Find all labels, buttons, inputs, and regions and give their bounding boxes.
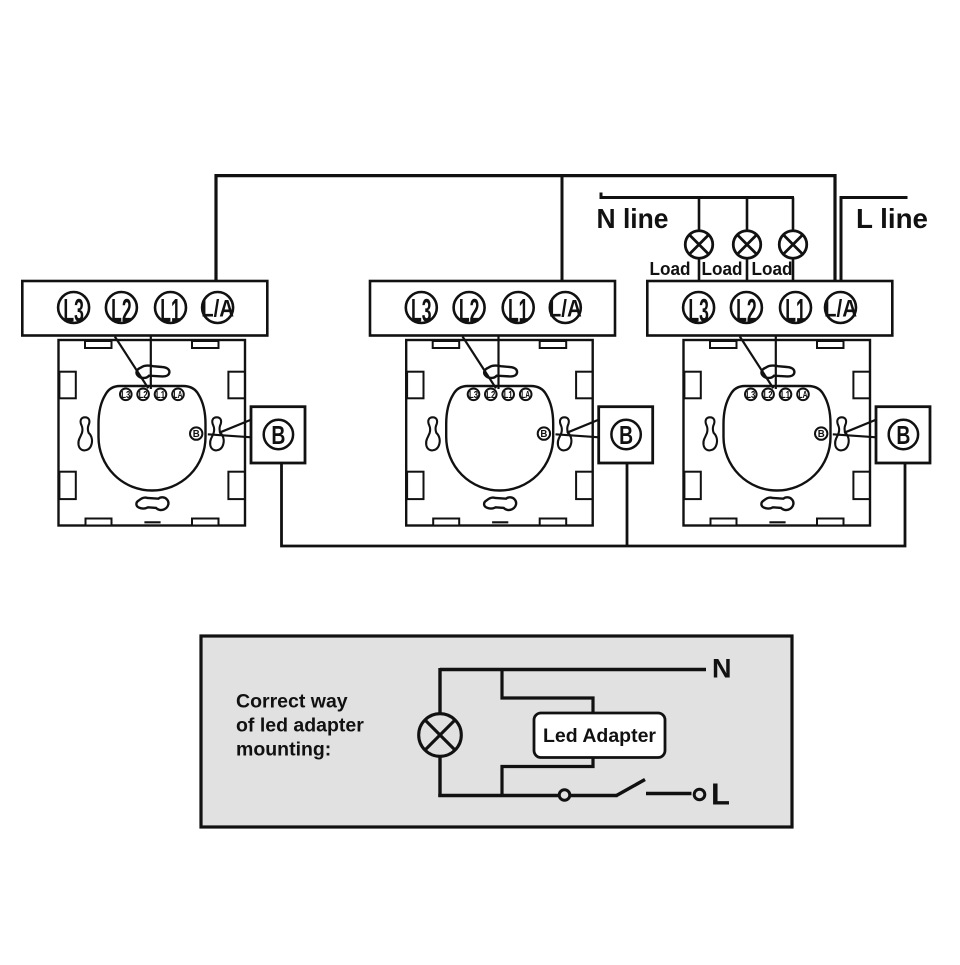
switch mechanism round body SW1 (99, 386, 206, 491)
B terminal circle SW2 (611, 420, 640, 449)
right side slot upper SW3 (853, 372, 869, 399)
svg-text:N: N (712, 654, 732, 684)
wire L1 to mechanism SW2 (497, 336, 499, 389)
info box: correct way of led adapter mounting (201, 636, 792, 827)
switch body frame SW3 (684, 340, 871, 526)
svg-text:L3: L3 (688, 292, 709, 328)
svg-text:mounting:: mounting: (236, 739, 331, 761)
svg-text:B: B (619, 420, 633, 450)
bottom mounting notch left SW2 (433, 519, 459, 526)
wire L2 to mechanism SW2 (463, 337, 497, 389)
svg-text:LA: LA (521, 390, 530, 401)
wire: N line bus (601, 193, 794, 198)
right keyhole slot SW1 (210, 417, 224, 450)
lamp Load 3 (779, 231, 807, 259)
bottom screw slot SW3 (761, 497, 793, 510)
switch lever (info box) (617, 780, 646, 796)
wire L1 to mechanism SW3 (775, 336, 777, 389)
svg-text:L2: L2 (459, 292, 480, 328)
bottom mounting notch left SW3 (711, 519, 737, 526)
B terminal box SW3 (876, 407, 930, 463)
svg-text:L3: L3 (121, 390, 130, 401)
top mounting notch left SW2 (433, 341, 460, 348)
mini terminal B (SW1) (190, 427, 202, 439)
svg-text:L3: L3 (63, 292, 84, 328)
wire: switch to L terminal (info box) (646, 792, 692, 795)
left side slot upper SW2 (407, 372, 423, 399)
left side slot upper SW3 (684, 372, 700, 399)
svg-text:Load: Load (752, 259, 793, 279)
right side slot upper SW2 (576, 372, 592, 399)
bottom mounting notch right SW3 (817, 519, 844, 526)
mini terminal B (SW2) (538, 427, 550, 439)
mini terminal B (SW3) (815, 427, 827, 439)
terminal L1 (SW2) (503, 292, 534, 323)
B terminal circle SW1 (264, 420, 293, 449)
svg-text:L2: L2 (486, 390, 495, 401)
left side slot lower SW3 (684, 472, 700, 499)
svg-text:L2: L2 (139, 390, 148, 401)
terminal L2 (SW1) (106, 292, 137, 323)
top screw slot SW3 (761, 366, 794, 378)
svg-text:L1: L1 (781, 390, 790, 401)
top mounting notch left SW1 (85, 341, 112, 348)
wire B box to keyhole upper SW2 (567, 420, 600, 433)
mini terminal L3 (SW1) (120, 389, 132, 401)
wire: N rail to lamp (info box) (438, 668, 441, 715)
wire: N bus to lamp 3 (792, 198, 795, 232)
top mounting notch right SW2 (540, 341, 567, 348)
wire B box to mini B lower SW3 (833, 434, 877, 437)
wire B box to mini B lower SW2 (556, 434, 600, 437)
wire: L rail left (info box) (438, 794, 559, 797)
left side slot lower SW2 (407, 472, 423, 499)
terminal L/A (SW2) (550, 292, 581, 323)
wire B box to keyhole upper SW3 (844, 420, 877, 433)
svg-text:L2: L2 (736, 292, 757, 328)
switch body frame SW1 (59, 340, 246, 526)
lamp Load 1 (685, 231, 713, 259)
terminal block SW3 (647, 281, 892, 336)
switch contact left (info box) (559, 790, 570, 801)
bottom centre tab SW1 (144, 521, 160, 523)
mini terminal L3 (SW3) (745, 389, 757, 401)
switch mechanism round body SW2 (446, 386, 553, 491)
svg-text:L1: L1 (160, 292, 181, 328)
svg-text:L1: L1 (504, 390, 513, 401)
terminal L3 (SW1) (58, 292, 89, 323)
led adapter box (534, 713, 665, 758)
wire: led adapter to L rail (info box) (502, 756, 593, 797)
mini terminal L2 (SW2) (485, 389, 497, 401)
terminal L1 (SW1) (155, 292, 186, 323)
wire L2 to mechanism SW3 (740, 337, 774, 389)
wire B box to mini B lower SW1 (208, 434, 252, 437)
bottom mounting notch right SW2 (540, 519, 567, 526)
svg-text:B: B (896, 420, 910, 450)
svg-text:L: L (711, 777, 730, 812)
bottom screw slot SW2 (484, 497, 516, 510)
svg-text:Load: Load (650, 259, 691, 279)
mini terminal L2 (SW3) (762, 389, 774, 401)
svg-text:L3: L3 (746, 390, 755, 401)
right side slot lower SW1 (228, 472, 244, 499)
B terminal box SW2 (599, 407, 653, 463)
svg-text:L1: L1 (508, 292, 529, 328)
terminal L/A (SW3) (825, 292, 856, 323)
terminal block SW1 (22, 281, 267, 336)
svg-text:L/A: L/A (549, 295, 582, 322)
svg-text:of led adapter: of led adapter (236, 715, 364, 737)
mini terminal LA (SW2) (520, 389, 532, 401)
svg-text:N line: N line (597, 203, 669, 234)
wire: N rail (info box) (440, 668, 706, 671)
wire B box to keyhole upper SW1 (219, 420, 252, 433)
wire: N rail to led adapter (info box) (502, 670, 593, 715)
wire: L rail to switch lever (info box) (570, 794, 618, 797)
left keyhole slot SW3 (703, 417, 717, 450)
wire: lamp to L rail (info box) (438, 756, 441, 798)
wire: N bus to lamp 1 (698, 198, 701, 232)
wire: B link bus (282, 463, 906, 546)
wire: L/A link bus switches 1-3 (216, 176, 835, 293)
svg-text:L/A: L/A (824, 295, 857, 322)
left keyhole slot SW2 (426, 417, 440, 450)
svg-text:LA: LA (799, 390, 808, 401)
wire L1 to mechanism SW1 (150, 336, 152, 389)
terminal L2 (SW3) (731, 292, 762, 323)
terminal block SW2 (370, 281, 615, 336)
top screw slot SW1 (136, 366, 169, 378)
svg-text:Load: Load (702, 259, 743, 279)
bottom screw slot SW1 (136, 497, 168, 510)
svg-text:L/A: L/A (201, 295, 234, 322)
right keyhole slot SW2 (558, 417, 572, 450)
bottom mounting notch left SW1 (86, 519, 112, 526)
terminal L/A (SW1) (202, 292, 233, 323)
mini terminal LA (SW1) (172, 389, 184, 401)
B terminal box SW1 (251, 407, 305, 463)
svg-text:L3: L3 (469, 390, 478, 401)
terminal L3 (SW2) (406, 292, 437, 323)
wire: L/A drop to SW2 (561, 176, 564, 293)
svg-text:Correct way: Correct way (236, 691, 348, 713)
top mounting notch right SW3 (817, 341, 844, 348)
mini terminal L1 (SW2) (502, 389, 514, 401)
mini terminal L1 (SW1) (155, 389, 167, 401)
svg-text:B: B (540, 429, 547, 440)
terminal L2 (SW2) (454, 292, 485, 323)
svg-text:L line: L line (856, 203, 928, 234)
wire L2 to mechanism SW1 (115, 337, 149, 389)
svg-text:L2: L2 (764, 390, 773, 401)
svg-text:B: B (818, 429, 825, 440)
svg-text:L3: L3 (411, 292, 432, 328)
right side slot lower SW3 (853, 472, 869, 499)
left keyhole slot SW1 (78, 417, 92, 450)
mini terminal L3 (SW2) (468, 389, 480, 401)
right keyhole slot SW3 (835, 417, 849, 450)
wire: lamp 1 to L3 (698, 258, 701, 293)
top screw slot SW2 (484, 366, 517, 378)
wire: lamp 3 to L1 (792, 258, 795, 293)
wire: L line to SW3 L/A (841, 198, 908, 294)
right side slot lower SW2 (576, 472, 592, 499)
svg-text:B: B (193, 429, 200, 440)
B terminal circle SW3 (889, 420, 918, 449)
svg-text:LA: LA (174, 390, 183, 401)
terminal L3 (SW3) (683, 292, 714, 323)
mini terminal L1 (SW3) (780, 389, 792, 401)
mini terminal LA (SW3) (797, 389, 809, 401)
left side slot lower SW1 (59, 472, 75, 499)
mini terminal L2 (SW1) (137, 389, 149, 401)
right side slot upper SW1 (228, 372, 244, 399)
bottom centre tab SW2 (492, 521, 508, 523)
top mounting notch left SW3 (710, 341, 737, 348)
bottom mounting notch right SW1 (192, 519, 219, 526)
top mounting notch right SW1 (192, 341, 219, 348)
bottom centre tab SW3 (769, 521, 785, 523)
lamp Load 2 (733, 231, 761, 259)
switch contact right (info box) (694, 789, 705, 800)
left side slot upper SW1 (59, 372, 75, 399)
wire: B drop SW2 (626, 463, 629, 546)
lamp (info box) (419, 714, 462, 757)
svg-text:L1: L1 (156, 390, 165, 401)
terminal L1 (SW3) (780, 292, 811, 323)
wire: N bus to lamp 2 (746, 198, 749, 232)
switch body frame SW2 (406, 340, 593, 526)
svg-text:Led Adapter: Led Adapter (543, 725, 656, 747)
svg-text:L2: L2 (111, 292, 132, 328)
svg-text:L1: L1 (785, 292, 806, 328)
switch mechanism round body SW3 (724, 386, 831, 491)
wire: lamp 2 to L2 (746, 258, 749, 293)
svg-text:B: B (271, 420, 285, 450)
